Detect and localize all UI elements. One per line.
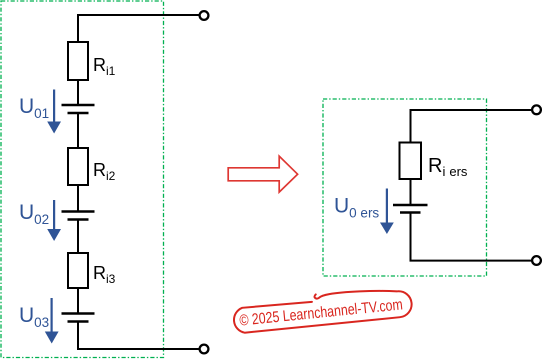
- stamp outline (hand-drawn capsule with jog): [232, 285, 413, 334]
- svg-text:Ri3: Ri3: [93, 263, 116, 286]
- wire: top lead from node to right terminal: [411, 110, 532, 143]
- wire: Ri2 to battery U02: [77, 185, 79, 212]
- terminal: open circle bottom right circuit: [532, 256, 541, 265]
- voltage arrow U03 (blue, downward): [45, 298, 59, 344]
- svg-text:U01: U01: [19, 95, 49, 121]
- resistor Ri ers: [400, 143, 422, 180]
- wire: Ri3 to battery U03: [77, 288, 79, 314]
- svg-text:U02: U02: [19, 201, 49, 227]
- resistor Ri3: [68, 253, 88, 288]
- wire: Ri ers to battery U0ers: [410, 179, 412, 205]
- wire: top lead from node to left terminal: [78, 15, 200, 42]
- battery U02 (cell: long and short plates): [62, 212, 95, 220]
- voltage arrow U02 (blue, downward): [47, 200, 61, 241]
- svg-text:U03: U03: [19, 304, 49, 330]
- equivalent-source boundary box (right, dash-dot green): [323, 99, 487, 276]
- wire: battery U01 to Ri2: [77, 113, 79, 148]
- svg-text:Riers: Riers: [428, 155, 468, 179]
- terminal: open circle bottom left circuit: [200, 345, 209, 354]
- wire: battery U02 to Ri3: [77, 220, 79, 254]
- terminal: open circle top right circuit: [532, 105, 541, 114]
- resistor Ri2: [68, 148, 88, 185]
- equivalent-source boundary box (left, dash-dot green): [1, 1, 164, 358]
- voltage arrow U01 (blue, downward): [47, 90, 61, 134]
- svg-text:U0 ers: U0 ers: [334, 195, 379, 221]
- battery U01 (cell: long and short plates): [62, 105, 95, 113]
- svg-text:Ri1: Ri1: [93, 55, 116, 78]
- wire: bottom lead from battery U03 to left bottom terminal: [78, 322, 200, 350]
- watermark stamp: © 2025 Learnchannel-TV.com: [232, 285, 413, 334]
- voltage arrow U0ers (blue, downward): [380, 189, 394, 235]
- transformation arrow (red block arrow): [228, 156, 297, 192]
- battery U03 (cell: long and short plates): [62, 314, 95, 322]
- terminal: open circle top left circuit: [200, 11, 209, 20]
- resistor Ri1: [68, 42, 88, 80]
- wire: Ri1 to battery U01: [77, 80, 79, 105]
- battery U0ers (cell: long and short plates): [393, 205, 428, 213]
- wire: bottom lead from battery U0ers to right bottom terminal: [411, 213, 532, 261]
- svg-text:Ri2: Ri2: [93, 160, 116, 183]
